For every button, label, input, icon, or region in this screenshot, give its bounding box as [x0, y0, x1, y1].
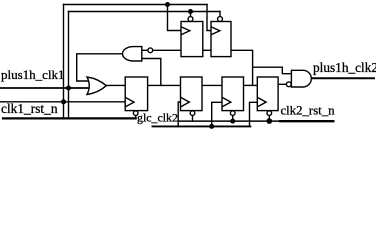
- svg-text:clk2_rst_n: clk2_rst_n: [281, 104, 336, 118]
- svg-text:glc_clk2: glc_clk2: [137, 111, 178, 125]
- svg-text:plus1h_clk2: plus1h_clk2: [313, 60, 376, 75]
- svg-text:plus1h_clk1: plus1h_clk1: [1, 67, 65, 82]
- svg-text:clk1_rst_n: clk1_rst_n: [1, 101, 58, 116]
